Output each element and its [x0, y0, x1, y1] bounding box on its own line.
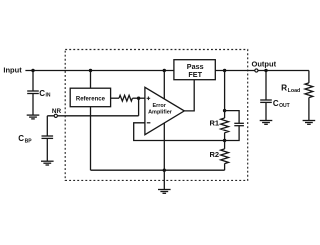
ground below amplifier [158, 170, 171, 193]
resistor R2 [221, 141, 229, 171]
label CBP [18, 134, 32, 144]
node NR pin circle [54, 114, 57, 117]
capacitor CIN [27, 71, 39, 116]
svg-text:Reference: Reference [76, 96, 106, 102]
node: divider midpoint junction [223, 139, 226, 142]
capacitor COUT [260, 71, 272, 121]
label Pass FET [187, 62, 204, 79]
node: ground rail junction [163, 169, 166, 172]
label RLoad [281, 83, 300, 94]
svg-text:R: R [281, 83, 287, 93]
svg-text:C: C [273, 99, 279, 108]
label Error Amplifier [148, 103, 173, 116]
wire: Reference bottom to ground rail [90, 107, 92, 171]
wire: + node down to NR trace [138, 98, 140, 116]
svg-text:C: C [39, 89, 45, 98]
wire: amplifier output to Pass FET gate [184, 80, 194, 111]
wire: rail down to R1 [224, 71, 226, 111]
svg-text:C: C [18, 134, 24, 143]
wire: bottom ground rail [91, 169, 225, 171]
svg-text:BP: BP [25, 138, 33, 144]
node: error amp + input junction [137, 97, 140, 100]
svg-text:Amplifier: Amplifier [148, 110, 173, 116]
node: reference branch junction [89, 69, 92, 72]
wire: NR horizontal trace [47, 115, 138, 117]
node: divider junction on output rail [223, 69, 226, 72]
svg-text:NR: NR [52, 108, 62, 115]
wire: rail down to amplifier top [163, 71, 165, 99]
svg-text:R2: R2 [210, 150, 220, 159]
label COUT [273, 99, 290, 109]
ground below RLoad [303, 121, 316, 125]
dashed IC boundary box [65, 50, 248, 181]
block Reference [70, 88, 110, 107]
node Output pin circle [255, 69, 258, 72]
svg-text:IN: IN [46, 93, 51, 99]
svg-text:Error: Error [152, 103, 166, 109]
label CIN [39, 89, 51, 99]
resistor RLoad [305, 71, 313, 121]
op-amp error amplifier triangle [145, 87, 184, 134]
ground below CBP [41, 161, 54, 165]
wire: feedback from divider to minus input [134, 123, 225, 141]
ground below COUT [260, 121, 273, 125]
svg-text:Output: Output [252, 60, 277, 69]
svg-text:Load: Load [288, 88, 301, 94]
capacitor CBP [42, 116, 54, 161]
svg-text:Input: Input [3, 65, 22, 74]
svg-text:R1: R1 [210, 118, 220, 127]
node: bias junction on input rail [163, 69, 166, 72]
wire: rail to Reference box top [90, 71, 92, 89]
node: R1 top junction [223, 109, 226, 112]
resistor: reference filter R [111, 95, 145, 101]
wire: input rail [25, 70, 174, 72]
plus input marker [147, 97, 151, 101]
wire: output rail [215, 70, 309, 72]
wire: amplifier bottom to ground rail [163, 123, 165, 170]
svg-text:OUT: OUT [279, 103, 290, 109]
block Pass FET [174, 60, 215, 80]
capacitor feed-forward across R1 [225, 111, 244, 141]
svg-text:FET: FET [188, 70, 202, 79]
resistor R1 [221, 111, 229, 141]
node: CIN junction [31, 69, 34, 72]
ground below CIN [27, 115, 40, 119]
minus input marker [147, 122, 151, 124]
node: COUT junction [264, 69, 267, 72]
